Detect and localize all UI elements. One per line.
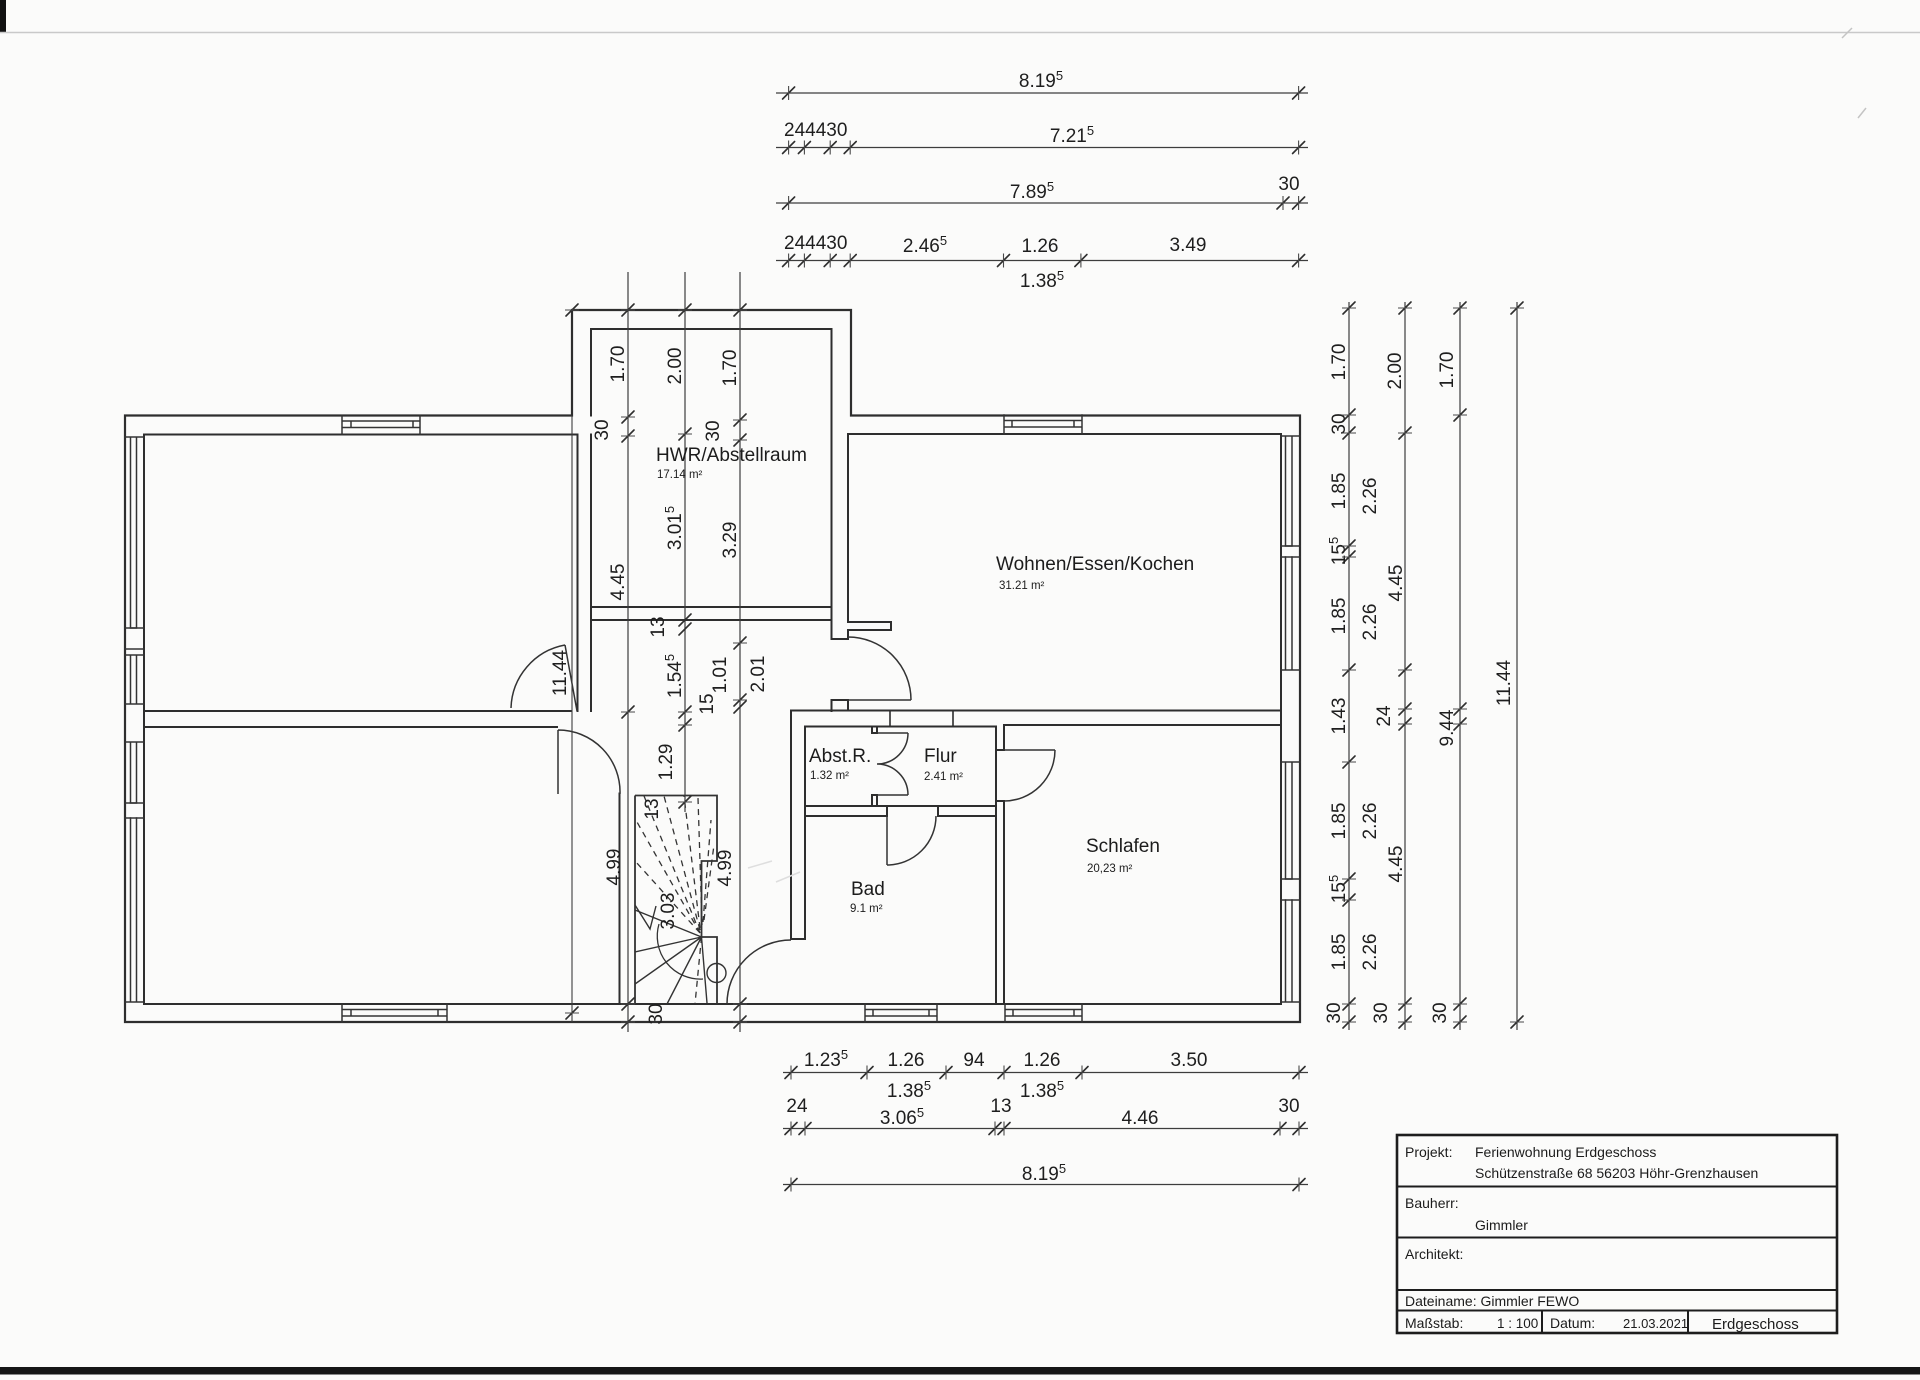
svg-text:17.14 m²: 17.14 m² xyxy=(657,469,703,481)
svg-text:1.70: 1.70 xyxy=(1329,344,1350,381)
dimension line: right vertical chain 1 xyxy=(1348,302,1350,1030)
svg-text:1.26: 1.26 xyxy=(1022,236,1059,257)
svg-text:4.46: 4.46 xyxy=(1122,1108,1159,1129)
svg-text:9.44: 9.44 xyxy=(1437,709,1458,746)
scan smudge top right xyxy=(1842,28,1866,118)
svg-text:3.29: 3.29 xyxy=(720,522,741,559)
svg-text:4.99: 4.99 xyxy=(715,850,736,887)
svg-text:1.70: 1.70 xyxy=(720,350,741,387)
tick marks: right chain 1 xyxy=(1343,302,1355,1028)
stair: cut line zigzag mark xyxy=(635,905,656,929)
svg-text:Datum:: Datum: xyxy=(1550,1315,1595,1331)
svg-text:30: 30 xyxy=(646,1003,667,1024)
svg-text:8.195: 8.195 xyxy=(1019,68,1063,92)
tick marks: right chain 3 xyxy=(1454,302,1466,1028)
window: left wall bottom window xyxy=(125,818,144,1002)
dimension line: middle vertical chain at 740 xyxy=(739,272,741,1032)
svg-text:21.03.2021: 21.03.2021 xyxy=(1623,1316,1688,1331)
stair: newel pole circle xyxy=(707,964,726,983)
svg-text:1.385: 1.385 xyxy=(1020,1078,1064,1102)
wall: Bad west outer wall with door jamb xyxy=(791,711,805,940)
tick marks: bottom dimension chains xyxy=(785,1067,1305,1191)
wall: corridor east / Wohnen west wall xyxy=(832,329,849,711)
svg-text:Gimmler: Gimmler xyxy=(1475,1217,1528,1233)
svg-text:7.895: 7.895 xyxy=(1010,179,1054,203)
svg-text:20,23 m²: 20,23 m² xyxy=(1087,863,1133,875)
svg-text:Bauherr:: Bauherr: xyxy=(1405,1195,1459,1211)
window: left wall second window xyxy=(125,655,144,704)
svg-text:30: 30 xyxy=(1324,1002,1345,1023)
tick marks: right chain 2 xyxy=(1399,302,1411,1028)
stair: dashed tread lines upper flight xyxy=(636,796,714,1004)
svg-text:2.26: 2.26 xyxy=(1360,604,1381,641)
dimension line: right vertical chain 4 (11.44) xyxy=(1516,302,1518,1030)
wall: HWR protrusion inner faces xyxy=(591,329,832,416)
wall: left wall pier between windows xyxy=(125,628,144,649)
svg-text:Wohnen/Essen/Kochen: Wohnen/Essen/Kochen xyxy=(996,554,1194,575)
svg-text:Abst.R.: Abst.R. xyxy=(809,746,871,767)
svg-text:30: 30 xyxy=(1430,1002,1451,1023)
svg-text:30: 30 xyxy=(1329,413,1350,434)
svg-text:24: 24 xyxy=(786,1096,808,1117)
svg-text:2.26: 2.26 xyxy=(1360,803,1381,840)
wall: Abst.R / Flur partition with double door opening xyxy=(872,727,877,807)
wall: HWR bottom wall (13cm) xyxy=(591,607,832,620)
svg-text:1.29: 1.29 xyxy=(656,744,677,781)
svg-text:Ferienwohnung Erdgeschoss: Ferienwohnung Erdgeschoss xyxy=(1475,1144,1656,1160)
window: top wall window of left room xyxy=(342,416,420,435)
svg-text:3.49: 3.49 xyxy=(1170,235,1207,256)
svg-text:13: 13 xyxy=(642,798,663,819)
door: Flur to Bad, leaf and swing arc xyxy=(887,816,936,865)
dimension line: bottom chain 1.23 1.26 94 1.26 3.50 xyxy=(783,1072,1308,1074)
svg-text:Architekt:: Architekt: xyxy=(1405,1246,1463,1262)
svg-text:9.1 m²: 9.1 m² xyxy=(850,903,883,915)
svg-text:4.99: 4.99 xyxy=(604,849,625,886)
window: right wall upper window xyxy=(1281,436,1300,546)
door: Flur to Schlafen, leaf and swing arc xyxy=(1004,750,1055,801)
svg-text:2.01: 2.01 xyxy=(748,656,769,693)
dimension line: right vertical chain 2 xyxy=(1404,302,1406,1030)
svg-text:HWR/Abstellraum: HWR/Abstellraum xyxy=(656,445,807,466)
svg-text:30: 30 xyxy=(1278,174,1299,195)
svg-text:1.545: 1.545 xyxy=(662,654,686,698)
scan artifact bottom black band xyxy=(0,1367,1920,1375)
svg-text:244430: 244430 xyxy=(784,233,847,254)
wall: divider between the two left rooms xyxy=(144,711,571,727)
svg-text:4.45: 4.45 xyxy=(1386,846,1407,883)
svg-text:8.195: 8.195 xyxy=(1022,1161,1066,1185)
wall: bottom exterior inner face xyxy=(144,1003,1281,1005)
svg-text:13: 13 xyxy=(990,1096,1011,1117)
svg-text:7.215: 7.215 xyxy=(1050,123,1094,147)
window: right wall Schlafen lower window xyxy=(1281,900,1300,1002)
door: top-left room door, leaf and swing arc xyxy=(511,645,577,711)
window: right wall Schlafen upper window xyxy=(1281,762,1300,879)
dimension line: middle vertical chain at 685 xyxy=(684,272,686,812)
svg-text:1.235: 1.235 xyxy=(804,1047,848,1071)
stair: spiral staircase enclosure outline xyxy=(635,796,717,1005)
svg-text:2.00: 2.00 xyxy=(1385,353,1406,390)
svg-text:1.385: 1.385 xyxy=(1020,268,1064,292)
door: double swing door Abst.R / Flur xyxy=(877,733,908,795)
wall: Flur and Schlafen top wall xyxy=(791,711,1281,727)
window: left wall upper window panes xyxy=(125,437,144,628)
svg-text:2.41 m²: 2.41 m² xyxy=(924,771,963,783)
wall: Bad top wall with door opening xyxy=(805,806,996,816)
svg-text:3.015: 3.015 xyxy=(662,506,686,550)
door: corridor to Wohnen, leaf and swing arc xyxy=(848,637,911,700)
wall: right wall Schlafen pier xyxy=(1281,879,1300,900)
wall: left exterior inner face xyxy=(143,435,145,1005)
svg-text:31.21 m²: 31.21 m² xyxy=(999,580,1045,592)
stair: walk line curve xyxy=(657,924,703,979)
svg-text:Dateiname: Gimmler FEWO: Dateiname: Gimmler FEWO xyxy=(1405,1293,1579,1309)
svg-text:1.43: 1.43 xyxy=(1329,698,1350,735)
dimension line: bottom chain 24 3.06 13 4.46 30 xyxy=(783,1128,1308,1130)
wall: room divider east wall outer line xyxy=(577,435,579,712)
dimension line: top chain 24 44 30 / 7.21 xyxy=(776,147,1308,149)
svg-text:1.70: 1.70 xyxy=(1437,352,1458,389)
svg-text:1.385: 1.385 xyxy=(887,1078,931,1102)
svg-text:11.44: 11.44 xyxy=(1494,660,1515,707)
svg-text:30: 30 xyxy=(703,420,724,441)
window: top wall window of Wohnen xyxy=(1004,415,1082,434)
svg-text:Flur: Flur xyxy=(924,746,957,767)
title block row lines xyxy=(1397,1187,1837,1311)
window: bottom wall window Schlafen xyxy=(1005,1004,1082,1022)
svg-text:15: 15 xyxy=(697,693,718,714)
svg-text:11.44: 11.44 xyxy=(550,650,571,697)
svg-text:1 : 100: 1 : 100 xyxy=(1497,1316,1538,1331)
svg-text:4.45: 4.45 xyxy=(608,564,629,601)
svg-text:1.70: 1.70 xyxy=(608,346,629,383)
scan smudge near corridor xyxy=(748,861,800,882)
dimension line: middle vertical chain at 628 xyxy=(627,272,629,1032)
wall: HWR west wall inner line down to corridor xyxy=(590,435,592,712)
window: right wall second window xyxy=(1281,557,1300,670)
wall: left wall lower pier xyxy=(125,803,144,818)
svg-text:1.85: 1.85 xyxy=(1329,934,1350,971)
svg-text:Bad: Bad xyxy=(851,879,885,900)
svg-text:3.50: 3.50 xyxy=(1171,1050,1208,1071)
svg-text:1.85: 1.85 xyxy=(1329,473,1350,510)
dimension line: bottom chain 8.19 xyxy=(783,1184,1308,1186)
svg-text:30: 30 xyxy=(1371,1002,1392,1023)
wall: Schlafen top wall stubs xyxy=(890,711,953,727)
wall: room2 / stair hall wall xyxy=(619,794,621,1005)
stair: solid tread lines lower flight xyxy=(635,910,707,1004)
window: bottom wall window left room xyxy=(342,1004,447,1022)
svg-text:2.465: 2.465 xyxy=(903,233,947,257)
svg-text:2.26: 2.26 xyxy=(1360,934,1381,971)
door: lower-left room door, leaf and swing arc xyxy=(558,730,620,794)
dimension line: top chain 7.89 / 30 xyxy=(776,202,1308,204)
title block column dividers bottom row xyxy=(1542,1311,1688,1334)
scan artifact top-left black block xyxy=(0,0,6,33)
svg-text:2.26: 2.26 xyxy=(1360,478,1381,515)
svg-text:24: 24 xyxy=(1374,705,1395,727)
dimension line: right vertical chain 3 xyxy=(1459,302,1461,1030)
svg-text:2.00: 2.00 xyxy=(665,348,686,385)
wall: Flur / Schlafen wall with door opening xyxy=(996,725,1004,1004)
svg-text:30: 30 xyxy=(592,419,613,440)
svg-text:3.065: 3.065 xyxy=(880,1105,924,1129)
svg-text:30: 30 xyxy=(1278,1096,1299,1117)
wall: top exterior inner face right section xyxy=(848,433,1281,435)
svg-text:1.26: 1.26 xyxy=(888,1050,925,1071)
svg-text:Projekt:: Projekt: xyxy=(1405,1144,1452,1160)
svg-text:13: 13 xyxy=(648,616,669,637)
svg-text:1.85: 1.85 xyxy=(1329,803,1350,840)
tick marks: right chain 4 xyxy=(1511,302,1523,1028)
tick marks: middle chains and protrusion top xyxy=(566,304,746,1028)
window: bottom wall window Bad xyxy=(865,1004,937,1022)
dimension line: left chain 11.44 extension xyxy=(571,416,573,1023)
svg-text:Schlafen: Schlafen xyxy=(1086,836,1160,857)
window: left wall third window xyxy=(125,742,144,803)
scan artifact faint top line xyxy=(0,32,1920,34)
svg-text:3.03: 3.03 xyxy=(658,893,679,930)
wire: exterior wall outer outline xyxy=(125,310,1300,1022)
wall: right wall pier xyxy=(1281,546,1300,557)
svg-text:4.45: 4.45 xyxy=(1386,565,1407,602)
svg-text:1.32 m²: 1.32 m² xyxy=(810,770,849,782)
wall: top exterior inner face left section xyxy=(144,434,578,436)
svg-text:155: 155 xyxy=(1326,537,1350,565)
wall: kitchen tab stub in Wohnen xyxy=(848,622,891,630)
dimension line: top chain 8.19 xyxy=(776,92,1308,94)
svg-text:Maßstab:: Maßstab: xyxy=(1405,1315,1463,1331)
svg-text:1.85: 1.85 xyxy=(1329,598,1350,635)
svg-text:244430: 244430 xyxy=(784,120,847,141)
svg-text:1.01: 1.01 xyxy=(710,657,731,694)
wall: right exterior inner face xyxy=(1280,434,1282,1004)
tick marks: top dimension chains xyxy=(783,87,1305,267)
dimension line: top chain 244430 / 2.46 1.26 3.49 xyxy=(776,260,1308,262)
svg-text:94: 94 xyxy=(963,1050,985,1071)
title block outer frame xyxy=(1397,1135,1837,1333)
svg-text:Schützenstraße 68 56203 Höhr-G: Schützenstraße 68 56203 Höhr-Grenzhausen xyxy=(1475,1165,1758,1181)
door: stair hall door at bottom, swing arc xyxy=(727,940,791,1004)
tick extension stubs on all dimension chains xyxy=(565,86,1524,1192)
svg-text:Erdgeschoss: Erdgeschoss xyxy=(1712,1316,1799,1333)
svg-text:1.26: 1.26 xyxy=(1024,1050,1061,1071)
